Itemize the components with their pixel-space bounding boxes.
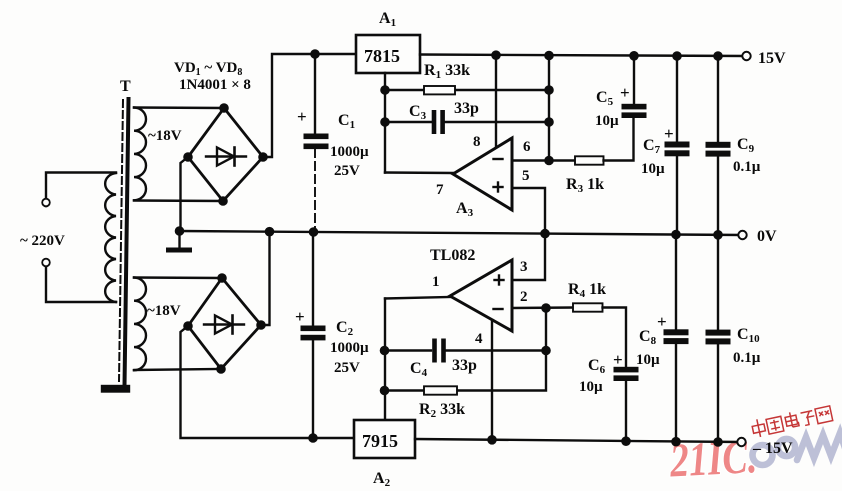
capacitor C3 plates <box>432 110 437 134</box>
node R1 left <box>381 86 388 93</box>
wire bridge2 left vertex down to unregulated - rail <box>181 326 355 438</box>
node bridge2 to 0V <box>266 228 273 235</box>
wire A3 non-inverting pin5 to 0V and pin3 of op-amp B <box>512 188 545 280</box>
svg-text:R2 33k: R2 33k <box>419 401 465 420</box>
op-amp A3 triangle <box>453 138 512 210</box>
capacitor C3 wire right <box>445 121 550 123</box>
svg-text:– 15V: – 15V <box>752 440 793 457</box>
resistor R2 wire <box>385 389 458 391</box>
svg-text:4: 4 <box>475 331 483 347</box>
wire primary top lead <box>46 173 116 207</box>
watermark com script <box>753 433 842 465</box>
capacitor C8 plates <box>664 329 689 335</box>
capacitor C1 lower lead dashed <box>314 149 316 232</box>
node C1-C2 0V junction <box>310 228 317 235</box>
node C9 rail junction <box>714 52 721 59</box>
svg-text:~ 220V: ~ 220V <box>20 233 65 249</box>
svg-text:10µ: 10µ <box>636 352 660 368</box>
node C8 0V junction <box>672 231 679 238</box>
svg-text:1000µ: 1000µ <box>330 144 369 160</box>
wire R4 to C6 <box>603 308 627 368</box>
node bridge1 top vertex <box>220 104 227 111</box>
capacitor C7 top lead <box>676 56 678 142</box>
node bridge2 left vertex <box>184 322 191 329</box>
svg-text:+: + <box>297 107 307 126</box>
primary winding coil <box>105 173 116 302</box>
svg-text:R1 33k: R1 33k <box>424 62 470 81</box>
node bridge2 top vertex <box>218 274 225 281</box>
svg-text:10µ: 10µ <box>579 379 603 395</box>
wire 7815 ground pin <box>384 73 386 173</box>
svg-text:6: 6 <box>523 139 531 155</box>
svg-text:VD1 ~ VD8: VD1 ~ VD8 <box>174 60 242 78</box>
node R2 left 7915 gnd <box>381 387 388 394</box>
node bridge2 right vertex <box>257 321 264 328</box>
node C4 left <box>381 347 388 354</box>
bridge1 diode anode line <box>206 155 246 157</box>
node R1 right <box>545 86 552 93</box>
capacitor C10 bottom lead <box>717 344 719 441</box>
terminal 220V upper <box>42 199 50 207</box>
svg-text:2: 2 <box>520 289 528 305</box>
wire secondary2 top lead to bridge <box>134 276 222 279</box>
capacitor C4 wire right <box>447 349 547 351</box>
svg-text:+: + <box>664 124 674 143</box>
svg-text:TL082: TL082 <box>430 247 475 264</box>
capacitor C2 plates <box>301 326 326 332</box>
svg-text:15V: 15V <box>758 50 786 67</box>
wire C6 bottom lead <box>625 381 627 441</box>
node C3 right <box>545 118 552 125</box>
secondary winding 2 coil <box>134 278 146 371</box>
node R3 left inverting input <box>545 157 552 164</box>
transformer T core solid bar <box>125 99 129 386</box>
node x549 rail junction <box>545 52 552 59</box>
node C6 bottom rail junction <box>622 438 629 445</box>
op-amp B TL082 triangle <box>450 260 512 331</box>
wire C5 top lead <box>633 56 635 105</box>
svg-text:25V: 25V <box>334 360 360 376</box>
wire op-amp B output pin1 <box>385 297 450 299</box>
node C3 left <box>381 118 388 125</box>
wire A3 output to 7815 gnd pin <box>385 171 453 174</box>
capacitor C2 lower lead <box>312 341 314 439</box>
node C4 right <box>542 347 549 354</box>
capacitor C1 upper lead <box>314 54 316 134</box>
wire secondary2 bottom lead to bridge <box>134 369 221 370</box>
capacitor C7 plates <box>665 142 690 148</box>
svg-text:+: + <box>620 83 630 102</box>
wire primary bottom lead <box>46 266 116 302</box>
capacitor C5 plates <box>622 104 647 110</box>
op-amp A3 plus sign <box>494 186 503 188</box>
terminal +15V <box>742 52 750 60</box>
svg-text:+: + <box>613 350 623 369</box>
capacitor C8 bottom lead <box>675 344 677 441</box>
ground symbol at 0V <box>178 231 180 247</box>
wire +15V top rail <box>420 55 746 57</box>
node bridge2 bottom vertex <box>217 365 224 372</box>
svg-text:T: T <box>120 78 131 95</box>
svg-text:10µ: 10µ <box>641 161 665 177</box>
svg-text:7815: 7815 <box>364 46 400 66</box>
node pin8 rail junction <box>492 52 499 59</box>
node C10 0V junction <box>714 231 721 238</box>
node C2 bottom rail junction <box>309 434 316 441</box>
node C5 rail junction <box>630 52 637 59</box>
op-amp B minus sign <box>494 308 503 310</box>
wire feedback node vertical x546 <box>457 308 546 391</box>
svg-text:3: 3 <box>520 259 528 275</box>
svg-text:1000µ: 1000µ <box>330 340 369 356</box>
capacitor C10 top lead <box>717 236 719 331</box>
capacitor C10 plates <box>706 330 731 336</box>
resistor R2 body <box>424 386 457 394</box>
bridge2 diode cathode bar <box>231 316 234 334</box>
secondary winding 1 coil <box>134 108 146 201</box>
node op-amp + inputs 0V junction <box>541 230 548 237</box>
svg-text:+: + <box>295 307 305 326</box>
svg-text:R4 1k: R4 1k <box>568 281 606 300</box>
wire secondary1 top lead to bridge <box>134 106 224 109</box>
node bridge1 bottom vertex <box>219 197 226 204</box>
wire op-amp B pin4 V- lead <box>491 320 493 440</box>
capacitor C6 plates <box>614 367 639 373</box>
resistor R4 body <box>573 303 603 311</box>
svg-text:7915: 7915 <box>362 431 398 451</box>
wire feedback node vertical x549 <box>548 56 550 161</box>
svg-text:~18V: ~18V <box>147 303 181 319</box>
svg-text:1N4001 × 8: 1N4001 × 8 <box>179 77 251 93</box>
bridge rectifier VD1-VD4 diamond <box>188 108 263 201</box>
op-amp B plus sign <box>495 279 504 281</box>
resistor R1 wire <box>385 89 549 91</box>
wire B inverting input pin2 <box>512 306 573 309</box>
capacitor C9 plates <box>706 142 731 148</box>
terminal 0V <box>738 231 746 239</box>
svg-text:1: 1 <box>432 274 440 290</box>
svg-text:0.1µ: 0.1µ <box>733 350 761 366</box>
capacitor C4 wire left <box>385 349 432 351</box>
svg-text:0V: 0V <box>757 228 777 245</box>
svg-text:~18V: ~18V <box>148 128 182 144</box>
svg-text:33p: 33p <box>452 357 477 374</box>
regulator A1 7815 box <box>356 35 420 73</box>
capacitor C9 top lead <box>717 56 719 142</box>
wire bridge1 right vertex up to unregulated + rail <box>263 54 356 157</box>
wire bridge1 left vertex down to 0V <box>181 157 189 231</box>
node bridge1 right vertex <box>259 153 266 160</box>
wire bridge2 right vertex up to 0V rail <box>261 232 270 325</box>
svg-text:33p: 33p <box>454 100 479 117</box>
node C8 bottom rail junction <box>672 438 679 445</box>
bridge1 diode cathode bar <box>233 148 236 166</box>
node C7 rail junction <box>673 52 680 59</box>
resistor R1 body <box>424 86 455 94</box>
wire op-amp pin8 V+ lead <box>495 55 497 148</box>
node C1 top rail junction <box>311 50 318 57</box>
svg-text:5: 5 <box>522 168 530 184</box>
svg-text:25V: 25V <box>334 163 360 179</box>
capacitor C4 plates <box>432 339 437 363</box>
bridge2 diode triangle <box>215 316 232 334</box>
capacitor C1 plates <box>304 134 329 140</box>
bridge1 diode triangle <box>217 148 234 166</box>
capacitor C8 top lead <box>675 236 677 331</box>
svg-text:7: 7 <box>436 182 444 198</box>
node bridge1 left vertex <box>184 153 191 160</box>
watermark 中国电子网 <box>751 404 833 438</box>
svg-text:8: 8 <box>473 134 481 150</box>
capacitor C2 upper lead <box>312 232 314 326</box>
bridge rectifier VD5-VD8 diamond <box>188 278 261 369</box>
svg-text:0.1µ: 0.1µ <box>733 159 761 175</box>
wire 7915 ground pin vertical <box>384 299 386 421</box>
wire A3 inverting input pin6 <box>512 159 575 161</box>
wire -15V bottom rail <box>415 439 741 442</box>
terminal -15V <box>737 438 745 446</box>
node pin2 R4 junction <box>542 304 549 311</box>
capacitor C3 wire left <box>385 121 432 123</box>
resistor R3 body <box>575 156 604 164</box>
capacitor C7 bottom lead <box>676 156 678 235</box>
transformer core ground bar <box>102 386 129 392</box>
wire R3 to C5 <box>604 117 634 161</box>
capacitor C9 bottom lead <box>717 157 719 236</box>
bridge2 diode anode line <box>204 323 244 325</box>
regulator A2 7915 box <box>354 420 415 458</box>
transformer T core dashed shield line <box>119 100 123 381</box>
svg-text:+: + <box>657 312 667 331</box>
wire 0V rail <box>180 231 743 235</box>
terminal 220V lower <box>42 259 50 267</box>
node C10 bottom rail junction <box>714 438 721 445</box>
node pin4 bottom rail junction <box>488 436 495 443</box>
svg-text:10µ: 10µ <box>595 113 619 129</box>
wire secondary1 bottom lead to bridge <box>134 199 223 202</box>
node ground 0V left <box>176 227 183 234</box>
op-amp A3 minus sign <box>494 158 503 160</box>
svg-text:R3 1k: R3 1k <box>566 176 604 195</box>
